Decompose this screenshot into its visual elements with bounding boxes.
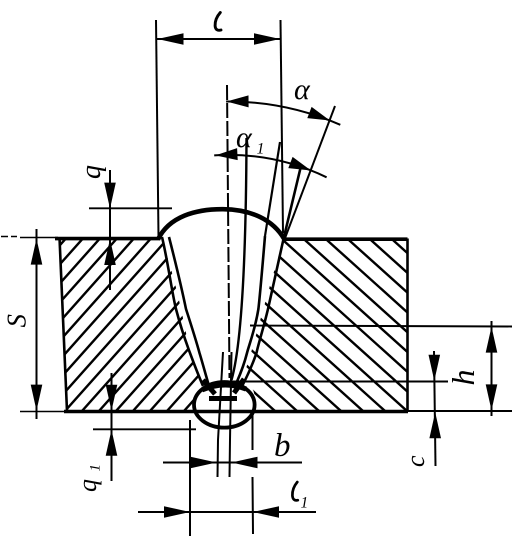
h dimension line and arrows: [491, 321, 493, 416]
root gap line right: [230, 352, 232, 477]
hatching left plate: [0, 235, 515, 420]
left plate left edge: [60, 238, 68, 412]
svg-text:q: q: [73, 479, 102, 492]
l1 extension line left: [189, 420, 191, 536]
root penetration bead (circle): [194, 382, 255, 428]
inner thin line from bead to root: [232, 138, 247, 380]
left fusion band outer line: [162, 237, 203, 386]
root gap line left: [218, 352, 224, 477]
c dimension line and arrows: [434, 351, 436, 466]
bead apex tangent line (q ref): [89, 207, 172, 209]
right fusion band outer line + extension above corner: [242, 168, 301, 387]
svg-text:c: c: [401, 455, 430, 467]
q1 bottom reference line (root bottom tangent): [93, 428, 196, 430]
svg-text:1: 1: [301, 495, 309, 512]
right fusion band inner line with extension above bead: [265, 142, 280, 236]
q dimension line and arrows: [109, 170, 111, 290]
weld bead reinforcement: [158, 209, 285, 239]
l1 extension line right: [252, 412, 255, 534]
svg-text:1: 1: [88, 464, 104, 472]
dimension line l extension left: [156, 20, 159, 237]
bottom surface plates: [20, 410, 512, 413]
svg-text:α: α: [294, 73, 311, 106]
l1 dimension line and arrows: [138, 511, 316, 513]
root convergence wedge left: [203, 380, 215, 394]
root face dark bar: [209, 396, 237, 401]
svg-text:S: S: [2, 314, 32, 328]
svg-text:α: α: [236, 121, 253, 154]
b dimension line and arrows: [163, 462, 302, 464]
top surface left plate: [20, 238, 160, 239]
q1 dimension line and arrows: [111, 373, 113, 481]
S dimension line and arrows: [36, 229, 38, 419]
angle alpha arc: [226, 101, 340, 124]
c top reference line (root top tangent): [230, 381, 448, 383]
left fusion band inner line: [169, 237, 211, 391]
vertical root edge reference line (dashed): [227, 85, 230, 378]
right plate right edge: [406, 239, 409, 412]
label l: [215, 13, 221, 31]
dimension line l: [157, 38, 281, 40]
h top reference line: [250, 326, 512, 327]
label l1: [292, 482, 297, 500]
root top rim thickening: [202, 385, 246, 390]
root convergence wedge right: [234, 379, 244, 393]
dimension line l extension right: [281, 20, 284, 233]
hatching right plate: [10, 232, 515, 420]
svg-text:h: h: [445, 370, 481, 386]
right bevel edge extension line: [285, 106, 336, 240]
svg-text:b: b: [274, 428, 291, 464]
dash-dot extension top left: [1, 236, 17, 238]
svg-text:q: q: [76, 165, 107, 179]
svg-text:1: 1: [257, 141, 265, 158]
top surface right plate: [283, 237, 408, 241]
angle alpha1 arc: [214, 155, 326, 177]
